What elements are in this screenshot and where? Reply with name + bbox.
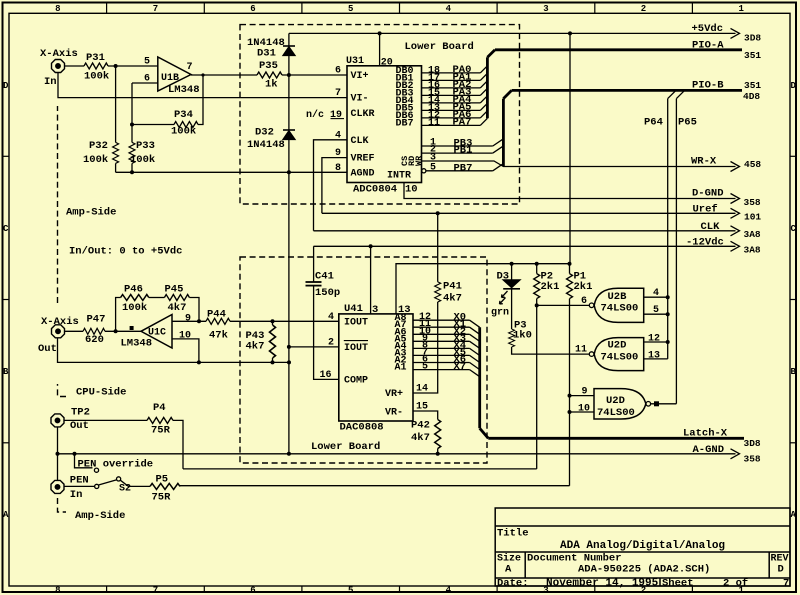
wire C41 to COMP pin16 [314, 286, 339, 380]
svg-text:S2: S2 [119, 484, 131, 495]
svg-text:74LS00: 74LS00 [601, 303, 639, 315]
svg-text:13: 13 [648, 350, 660, 361]
svg-text:P5: P5 [156, 473, 169, 485]
wire P32 bottom [115, 163, 117, 172]
svg-text:PIO-A: PIO-A [692, 39, 724, 51]
svg-text:4k7: 4k7 [168, 302, 187, 314]
svg-text:B: B [3, 367, 9, 377]
svg-text:9: 9 [582, 387, 588, 398]
top ticks [106, 3, 108, 14]
svg-text:U2D: U2D [608, 340, 627, 352]
svg-text:3A8: 3A8 [744, 244, 761, 255]
svg-text:U31: U31 [346, 56, 364, 67]
svg-text:PIO-B: PIO-B [692, 79, 724, 91]
svg-text:2: 2 [328, 338, 334, 349]
feedback riser [116, 298, 121, 332]
wire D32 to AGND rail and down [288, 140, 290, 173]
svg-text:A: A [505, 564, 512, 576]
svg-text:Out: Out [70, 420, 89, 432]
svg-text:5: 5 [144, 57, 150, 68]
svg-text:3D8: 3D8 [744, 33, 761, 44]
svg-text:4: 4 [653, 288, 659, 299]
resistor P47 [83, 328, 105, 334]
svg-text:4D8: 4D8 [743, 91, 760, 102]
svg-text:3A8: 3A8 [744, 229, 761, 240]
svg-text:Title: Title [497, 528, 529, 540]
A-GND line [58, 453, 736, 455]
wire VREF pin9 [322, 158, 347, 214]
svg-text:10: 10 [179, 331, 191, 342]
svg-text:D32: D32 [255, 127, 274, 139]
svg-text:X-Axis: X-Axis [40, 48, 78, 60]
connector TP2 Out [51, 414, 64, 427]
svg-text:+5Vdc: +5Vdc [692, 23, 724, 35]
svg-text:10: 10 [578, 404, 590, 415]
svg-text:P45: P45 [165, 283, 184, 295]
junction dots [56, 452, 77, 456]
svg-text:A: A [790, 510, 796, 520]
svg-text:D31: D31 [257, 48, 276, 60]
svg-text:TP2: TP2 [71, 407, 90, 419]
gate U2D mid (mirrored NAND) [594, 338, 644, 371]
svg-text:7: 7 [153, 586, 158, 595]
connector X-Axis In [52, 60, 65, 73]
svg-text:P35: P35 [259, 60, 278, 72]
X bus thick vertical to Latch-X [480, 327, 744, 438]
svg-text:VREF: VREF [351, 154, 375, 165]
svg-text:-12Vdc: -12Vdc [686, 236, 724, 248]
svg-text:ADA-950225 (ADA2.SCH): ADA-950225 (ADA2.SCH) [578, 564, 710, 576]
resistor P43 [272, 321, 274, 325]
svg-text:358: 358 [744, 454, 761, 465]
svg-text:4k7: 4k7 [443, 293, 462, 305]
svg-text:LM348: LM348 [121, 337, 153, 349]
svg-text:74LS00: 74LS00 [597, 407, 635, 419]
svg-text:PEN override: PEN override [78, 458, 154, 470]
wire P33 bottom [131, 163, 133, 172]
svg-text:November 14, 1995: November 14, 1995 [546, 577, 659, 589]
PIO-A thick bus [495, 48, 742, 51]
op-amp U1B [158, 57, 191, 91]
wire P2 bottom to U2B out and down [536, 299, 538, 469]
pin3 riser [370, 246, 372, 314]
svg-text:4k7: 4k7 [246, 340, 265, 352]
wire pin9 [172, 320, 206, 322]
wire P1 down to gate3 inputs and P5 [569, 299, 571, 486]
wire IOUT pin4 (from P44 chain) [230, 320, 339, 322]
svg-text:10: 10 [405, 184, 418, 196]
wire VR- pin15 to P42 [413, 411, 438, 420]
svg-text:n/c 19: n/c 19 [306, 109, 342, 121]
wire opamp pin6 [132, 82, 158, 84]
svg-text:ADA Analog/Digital/Analog: ADA Analog/Digital/Analog [560, 540, 725, 552]
svg-text:P64: P64 [644, 117, 663, 129]
svg-text:7: 7 [783, 577, 789, 589]
resistor P31 [84, 63, 108, 69]
svg-text:6: 6 [250, 586, 255, 595]
amp side dashed separator lower [58, 498, 67, 512]
svg-text:358: 358 [744, 197, 761, 208]
svg-text:A1: A1 [395, 363, 407, 374]
svg-text:Out: Out [38, 343, 57, 355]
svg-text:U1B: U1B [161, 73, 179, 84]
svg-text:D: D [3, 81, 9, 91]
svg-text:11: 11 [575, 345, 587, 356]
svg-text:100k: 100k [83, 154, 108, 166]
svg-text:11: 11 [428, 118, 440, 129]
wire pin6 down to P33 [131, 83, 133, 142]
svg-text:LM348: LM348 [168, 84, 200, 96]
svg-text:5: 5 [653, 305, 659, 316]
svg-text:COMP: COMP [344, 375, 368, 386]
svg-text:2: 2 [641, 4, 646, 14]
svg-text:Amp-Side: Amp-Side [75, 510, 125, 522]
svg-text:5: 5 [422, 362, 428, 373]
junction dots [287, 211, 440, 455]
svg-text:1: 1 [738, 4, 744, 14]
svg-text:12: 12 [648, 334, 660, 345]
svg-text:A-GND: A-GND [693, 444, 725, 456]
svg-text:150p: 150p [315, 287, 340, 299]
svg-text:grn: grn [491, 308, 509, 319]
svg-text:Date:: Date: [497, 577, 529, 589]
svg-text:5: 5 [348, 586, 353, 595]
svg-text:6: 6 [335, 66, 341, 77]
pin13 riser to +5 rail [396, 264, 570, 314]
PIO-B thick bus [512, 89, 742, 92]
svg-text:VR-: VR- [385, 408, 403, 419]
gate U2B (mirrored NAND) [594, 288, 644, 322]
bottom ticks [106, 586, 108, 592]
svg-text:P42: P42 [411, 420, 430, 432]
op-amp U1C (mirrored) [141, 315, 172, 349]
WR pin3 wire to WR-X [422, 161, 736, 167]
IC U41 body [339, 314, 413, 421]
PA bus thick vertical [487, 50, 742, 119]
svg-text:X7: X7 [454, 361, 467, 373]
svg-text:PA7: PA7 [453, 116, 472, 128]
wire CLK pin4 [314, 140, 348, 231]
svg-text:75R: 75R [151, 425, 171, 437]
svg-text:7: 7 [187, 62, 193, 73]
resistor P3 [509, 329, 515, 347]
svg-text:7: 7 [335, 88, 341, 99]
svg-text:4: 4 [335, 130, 341, 141]
svg-text:351: 351 [744, 50, 761, 61]
svg-text:P41: P41 [443, 281, 462, 293]
svg-text:P65: P65 [678, 117, 697, 129]
resistor P35 [257, 72, 282, 78]
svg-text:IOUT: IOUT [344, 343, 368, 354]
diode D32 [283, 129, 295, 131]
resistor P41 on Uref riser [437, 213, 439, 281]
svg-text:6: 6 [144, 74, 150, 85]
junction dots [510, 262, 670, 414]
svg-text:9: 9 [185, 313, 191, 324]
svg-text:3: 3 [372, 304, 378, 316]
resistor P42 [435, 420, 441, 449]
svg-text:14: 14 [416, 384, 428, 395]
wire P4 corner down [173, 420, 183, 469]
svg-text:P44: P44 [207, 308, 226, 320]
svg-text:B: B [790, 367, 796, 377]
svg-text:CPU-Side: CPU-Side [76, 387, 126, 399]
small square at apex [130, 326, 134, 330]
svg-text:P31: P31 [86, 52, 105, 64]
svg-text:101: 101 [744, 212, 761, 223]
svg-text:1N4148: 1N4148 [247, 139, 285, 151]
wire P34 right riser [198, 75, 203, 125]
wire In connector stub down [58, 73, 347, 98]
svg-text:P32: P32 [89, 140, 108, 152]
svg-text:4: 4 [446, 4, 452, 14]
svg-text:1k: 1k [265, 79, 278, 91]
svg-text:100k: 100k [130, 154, 155, 166]
svg-text:75R: 75R [152, 492, 172, 504]
svg-text:6: 6 [581, 296, 587, 307]
resistor P45 [164, 295, 189, 301]
svg-text:U2B: U2B [608, 291, 628, 303]
svg-text:Lower Board: Lower Board [311, 441, 380, 453]
wire pin10 route [172, 339, 199, 363]
wire P31 to opamp pin5 [108, 65, 158, 67]
svg-text:D3: D3 [497, 271, 510, 283]
wire node down to P32 [115, 66, 117, 142]
upper board dashed box [240, 25, 520, 204]
P64 vertical [667, 99, 669, 359]
svg-text:Latch-X: Latch-X [683, 428, 728, 440]
svg-text:6: 6 [250, 4, 255, 14]
svg-text:P33: P33 [136, 140, 155, 152]
wire P34 left [132, 124, 174, 126]
resistor P2 [536, 264, 538, 274]
svg-text:2k1: 2k1 [574, 281, 593, 293]
svg-text:CLK: CLK [351, 136, 369, 147]
svg-text:15: 15 [416, 402, 428, 413]
+5V drop to pullups [569, 33, 571, 263]
feedback right corner down [189, 298, 199, 322]
D-GND arrow [731, 194, 740, 204]
svg-text:1k0: 1k0 [513, 330, 532, 342]
svg-text:VI-: VI- [351, 94, 369, 105]
svg-text:C: C [3, 224, 9, 234]
svg-text:74LS00: 74LS00 [601, 352, 639, 364]
svg-text:DAC0808: DAC0808 [340, 422, 384, 434]
svg-text:U41: U41 [344, 303, 363, 315]
svg-text:C41: C41 [315, 271, 334, 283]
svg-text:4: 4 [328, 312, 334, 323]
resistor P5 [150, 483, 180, 489]
control pin wires [422, 145, 493, 147]
svg-text:4: 4 [446, 586, 452, 595]
svg-text:X-Axis: X-Axis [41, 316, 79, 328]
svg-text:WR-X: WR-X [691, 156, 717, 168]
svg-text:In/Out: 0 to +5Vdc: In/Out: 0 to +5Vdc [69, 246, 182, 258]
svg-text:CLKR: CLKR [351, 109, 375, 120]
resistor P33 vertical [129, 142, 135, 163]
svg-text:C: C [790, 224, 796, 234]
svg-text:IOUT: IOUT [344, 317, 368, 328]
svg-text:PB1: PB1 [454, 145, 473, 157]
svg-text:PEN: PEN [70, 474, 89, 486]
gate U2D right (NAND) [594, 389, 646, 419]
PB bus thick vertical [503, 90, 742, 166]
resistor P1 [569, 264, 571, 274]
gate3 output wire with square [651, 403, 677, 405]
switch S2 [64, 485, 95, 487]
wire AGND rail [116, 171, 347, 173]
P65 vertical [675, 99, 677, 404]
svg-text:3: 3 [543, 4, 548, 14]
wire IOUT2 pin2 [289, 346, 339, 348]
junction dots [114, 319, 291, 364]
wire P3 to U2D out [512, 347, 590, 354]
svg-text:2 of: 2 of [723, 577, 748, 589]
svg-text:PB7: PB7 [454, 162, 473, 174]
svg-text:In: In [70, 489, 83, 501]
resistor P46 [121, 295, 149, 301]
svg-text:100k: 100k [84, 71, 109, 83]
wire P2 corner to P4 line [183, 468, 537, 470]
svg-text:7: 7 [153, 4, 158, 14]
svg-text:D: D [778, 564, 784, 576]
INTR bubble and PB7 wire [422, 169, 426, 173]
svg-text:5: 5 [430, 162, 436, 173]
svg-text:AGND: AGND [351, 168, 375, 179]
wire U1B output [191, 74, 257, 76]
svg-text:16: 16 [320, 370, 332, 381]
svg-text:U2D: U2D [606, 395, 625, 407]
amp/cpu side dashed separator upper [58, 384, 67, 397]
svg-text:4k7: 4k7 [411, 432, 430, 444]
svg-text:3D8: 3D8 [744, 438, 761, 449]
resistor P4 [147, 417, 173, 423]
svg-text:Lower Board: Lower Board [405, 41, 474, 53]
svg-text:8: 8 [55, 586, 60, 595]
svg-text:100k: 100k [122, 302, 147, 314]
svg-text:620: 620 [85, 334, 104, 346]
svg-text:P4: P4 [153, 402, 166, 414]
svg-text:In: In [44, 76, 57, 88]
resistor P32 vertical [113, 142, 119, 163]
svg-text:458: 458 [744, 159, 761, 170]
pin 10 ground stub [404, 183, 736, 199]
svg-text:D: D [790, 81, 796, 91]
connector PEN In [51, 480, 64, 493]
svg-text:VR+: VR+ [385, 389, 403, 400]
svg-text:Uref: Uref [693, 204, 718, 216]
diode vertical rail [288, 33, 290, 46]
junction dots [378, 31, 572, 35]
IC U31 body [347, 66, 422, 183]
A1-A8 wires with bus entries [413, 319, 470, 321]
svg-text:P47: P47 [87, 314, 106, 326]
wire P41 to VR+ pin14 [413, 302, 438, 393]
svg-text:2k1: 2k1 [541, 281, 560, 293]
svg-text:351: 351 [744, 80, 761, 91]
pin 20 stub [379, 33, 381, 65]
right ticks [790, 155, 796, 157]
junction dots [114, 64, 291, 174]
LED arrows [502, 291, 508, 298]
diode D31 [283, 45, 295, 47]
svg-text:D-GND: D-GND [692, 188, 724, 200]
svg-text:8: 8 [335, 163, 341, 174]
svg-text:P46: P46 [124, 283, 143, 295]
svg-text:Sheet: Sheet [662, 577, 694, 589]
Uref line [322, 212, 736, 214]
wire P47 to opamp apex [105, 330, 141, 332]
svg-text:VI+: VI+ [351, 71, 369, 82]
svg-text:DB7: DB7 [396, 118, 414, 129]
bottom return line [58, 338, 290, 362]
svg-text:Amp-Side: Amp-Side [66, 207, 116, 219]
LED D3 [511, 264, 513, 280]
resistor P34 [174, 122, 198, 128]
svg-text:ADC0804: ADC0804 [353, 184, 397, 196]
capacitor C41 [313, 246, 315, 282]
svg-text:A: A [3, 510, 9, 520]
svg-text:WR: WR [414, 155, 424, 166]
left ticks [3, 155, 10, 157]
svg-text:INTR: INTR [387, 171, 411, 182]
connector X-Axis Out [52, 325, 65, 338]
wire in to P31 [65, 65, 85, 67]
svg-text:100k: 100k [171, 126, 196, 138]
svg-text:CLK: CLK [701, 221, 721, 233]
+5Vdc line [289, 32, 736, 34]
wire out conn to P47 [65, 330, 84, 332]
wire VI+ node down to D32 [288, 75, 290, 130]
svg-text:5: 5 [348, 4, 353, 14]
DB0-DB7 data wires with bus entries [422, 72, 481, 74]
CLK line [314, 230, 736, 232]
PEN override stub [75, 454, 93, 468]
vertical TP2 to PEN In [57, 427, 59, 481]
svg-text:47k: 47k [209, 330, 228, 342]
svg-text:9: 9 [335, 148, 341, 159]
resistor P44 [206, 318, 230, 324]
wire P35 to ADC VI+ [282, 74, 347, 76]
lower board dashed box [240, 257, 487, 463]
wire TP2 to P4 [64, 419, 147, 421]
svg-text:8: 8 [55, 4, 60, 14]
-12Vdc line [314, 245, 736, 247]
svg-text:20: 20 [381, 58, 393, 69]
svg-text:P34: P34 [174, 109, 193, 121]
